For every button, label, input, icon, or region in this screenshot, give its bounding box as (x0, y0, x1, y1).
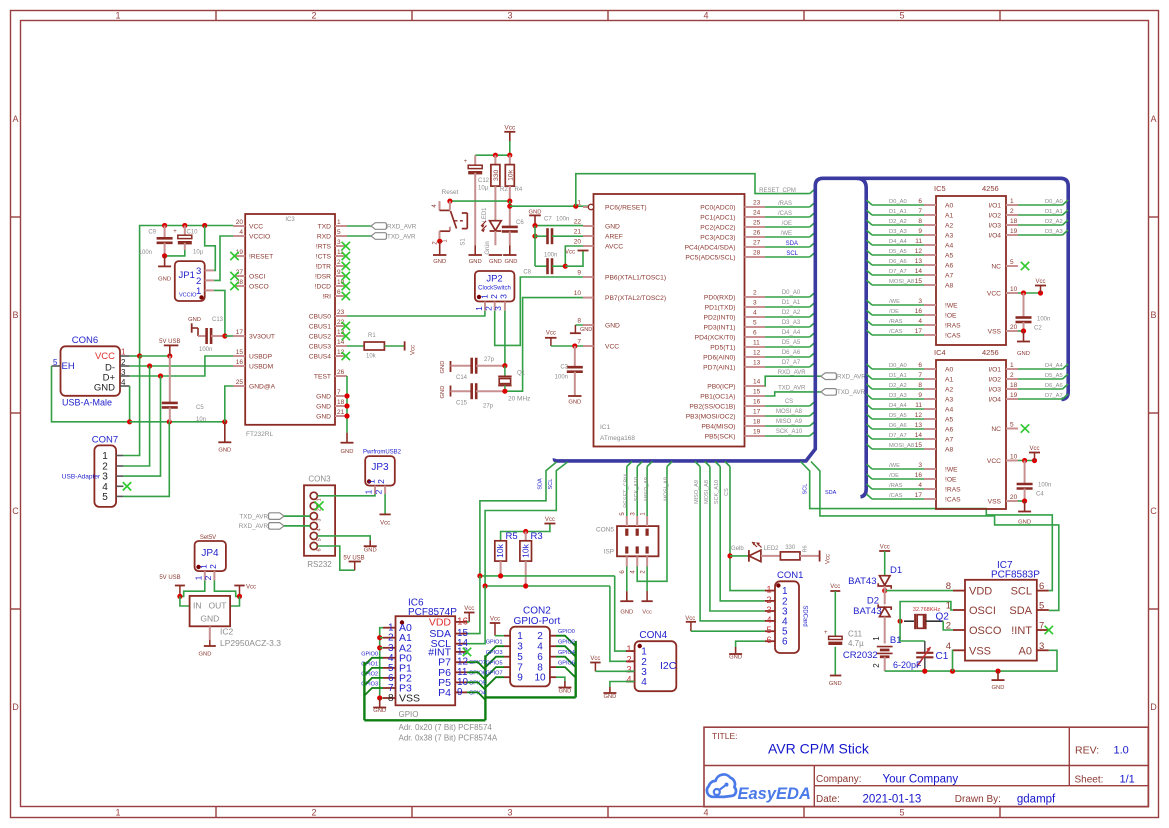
svg-text:5: 5 (517, 652, 523, 663)
IC6 pin 10 P5 (438, 677, 468, 689)
bus entry D3_A3 IC4 (867, 394, 873, 399)
svg-text:1: 1 (1010, 198, 1014, 205)
wire SDA from IC1 (765, 246, 810, 248)
IC6 pin 13 #INT (428, 646, 468, 658)
junction R2 top (493, 153, 498, 158)
svg-text:CON7: CON7 (92, 435, 118, 446)
bus entry D5_A5 right IC4 (1063, 374, 1069, 379)
junction XTAL2 crystal bottom (502, 389, 507, 394)
bus entry D5_A5 IC4 (867, 414, 873, 419)
svg-text:15: 15 (915, 442, 923, 449)
wire A2 stub (380, 647, 383, 649)
svg-text:A5: A5 (945, 417, 953, 424)
svg-text:6: 6 (337, 289, 341, 296)
svg-text:3: 3 (337, 239, 341, 246)
svg-text:8: 8 (577, 318, 581, 325)
svg-text:GND: GND (829, 681, 842, 687)
svg-text:VCC: VCC (987, 291, 1001, 298)
wire SCL from bus end (485, 462, 567, 586)
IC6 pin 12 P7 (438, 657, 468, 669)
wire SCL rail to CON4 pin2 (610, 586, 635, 661)
svg-text:3: 3 (507, 11, 512, 21)
IC4 pin 3 !WE (918, 462, 958, 474)
wire Vcc to IC2 OUT (230, 596, 239, 606)
wire /RAS to IC5 !RAS (872, 324, 924, 326)
wire D1_A1 from IC5 (1018, 214, 1063, 216)
wire SDA rail to CON4 pin1 (615, 576, 635, 651)
wire GPIO7 entry CON2 (485, 677, 504, 688)
wire D5_A5 from IC1 (765, 346, 810, 348)
wire D4_A4 from IC1 (765, 336, 810, 338)
svg-text:VSS: VSS (988, 499, 1002, 506)
svg-text:R4: R4 (515, 187, 523, 193)
svg-text:D5_A5: D5_A5 (782, 340, 801, 346)
svg-text:OUT: OUT (209, 601, 227, 611)
svg-text:PC4(ADC4/SDA): PC4(ADC4/SDA) (685, 245, 736, 252)
no-connect X IC3 CBUS1 (342, 322, 350, 330)
svg-text:10: 10 (534, 673, 546, 684)
svg-text:GPIO0: GPIO0 (558, 629, 575, 635)
svg-text:C: C (12, 506, 19, 516)
svg-text:1: 1 (337, 219, 341, 226)
svg-text:RXD_AVR: RXD_AVR (837, 374, 866, 381)
junction C8 AVCC (563, 264, 568, 269)
wire D3_A3 to IC4 A3 (872, 398, 924, 400)
IC5 pin 19 I/O4 (988, 228, 1018, 240)
wire D1 to D2 (884, 586, 886, 604)
wire JP2 pin3 to crystal (504, 311, 506, 366)
IC7 pin 3 A0 (1019, 641, 1049, 658)
wire JP4 pin2 to Vcc (214, 580, 239, 596)
IC7 pin 4 VSS (946, 641, 991, 658)
svg-text:D4_A4: D4_A4 (782, 330, 801, 336)
svg-text:D7_A7: D7_A7 (889, 433, 907, 439)
svg-text:17: 17 (753, 409, 761, 416)
ground for C6 (503, 245, 517, 265)
svg-text:C7: C7 (544, 217, 552, 223)
svg-text:CON3: CON3 (308, 475, 331, 484)
crystal Q1 (498, 366, 530, 403)
wire MOSI_A8 to CON1 pin3 (710, 467, 765, 612)
wire IC6 SCL to rail (467, 586, 485, 644)
wire CON2 pin10 to GND (556, 677, 565, 681)
bus entry D4_A4 right IC4 (1063, 364, 1069, 369)
svg-text:EasyEDA: EasyEDA (738, 785, 811, 803)
svg-text:/CAS: /CAS (778, 211, 792, 217)
svg-text:GND: GND (341, 449, 354, 455)
svg-text:OSCO: OSCO (249, 284, 269, 291)
wire RXD to port (347, 235, 371, 237)
svg-text:I/O4: I/O4 (988, 397, 1001, 404)
power flag Vcc CON5 (642, 591, 653, 616)
svg-text:SDA: SDA (538, 478, 544, 490)
svg-text:GND: GND (200, 614, 219, 624)
svg-text:MISO_A9: MISO_A9 (776, 419, 803, 425)
svg-text:6-20pF: 6-20pF (893, 660, 922, 670)
battery B1 CR2032 (843, 635, 902, 668)
wire D4_A4 from IC4 (1018, 368, 1063, 370)
CON5 pin stubs and numbers (620, 512, 647, 574)
svg-text:16: 16 (753, 399, 761, 406)
svg-text:/WE: /WE (889, 463, 900, 469)
svg-text:MISO_A9: MISO_A9 (694, 480, 700, 504)
svg-text:ClockSwitch: ClockSwitch (478, 286, 511, 292)
IC4 pin 15 A8 (915, 442, 954, 454)
IC3 pin 11 !CTS (316, 249, 347, 261)
svg-text:C11: C11 (848, 629, 863, 638)
svg-text:4: 4 (918, 482, 922, 489)
svg-text:7: 7 (918, 372, 922, 379)
svg-text:C8: C8 (523, 270, 531, 276)
svg-text:Vcc: Vcc (464, 606, 474, 612)
wire Vcc to CON2 pin1 (495, 635, 504, 637)
svg-text:27p: 27p (484, 357, 495, 363)
svg-text:GND: GND (158, 277, 171, 283)
bus entry D1_A1 (810, 302, 816, 307)
bus main loop (554, 178, 1068, 461)
svg-text:21: 21 (337, 409, 345, 416)
svg-text:PwrfromUSB2: PwrfromUSB2 (363, 450, 402, 456)
svg-text:10: 10 (1010, 454, 1018, 461)
svg-text:RS232: RS232 (307, 560, 332, 569)
ground for IC5 (1023, 331, 1025, 342)
svg-text:25: 25 (236, 379, 244, 386)
wire CON3 pin5 to GND (317, 536, 370, 540)
svg-text:GPIO6: GPIO6 (558, 661, 575, 667)
no-connect X IC6 #INT (463, 648, 471, 656)
svg-text:CS: CS (724, 488, 730, 496)
svg-text:100n: 100n (139, 250, 152, 256)
wire 3V3OUT pin (225, 335, 233, 337)
resistor R5 10k (495, 531, 518, 576)
bus entry /CAS (810, 212, 816, 217)
bus entry SCL (810, 252, 816, 257)
svg-text:RXD_AVR: RXD_AVR (239, 523, 269, 530)
wire CON5 pin6 to GND (626, 567, 628, 592)
svg-text:A1: A1 (945, 213, 953, 220)
svg-text:GND: GND (440, 361, 446, 374)
wire IC7 GND rail (885, 650, 1057, 671)
wire /WE from IC1 (765, 236, 810, 238)
svg-text:D0_A0: D0_A0 (1045, 199, 1063, 205)
bus entry D3_A3 right IC5 (1063, 230, 1069, 235)
bus entry D1_A1 IC5 (867, 210, 873, 215)
bus entry D7_A7 (810, 362, 816, 367)
svg-text:3: 3 (626, 664, 631, 674)
svg-text:GND: GND (1017, 351, 1030, 357)
svg-text:18: 18 (1010, 218, 1018, 225)
svg-text:1: 1 (121, 348, 126, 357)
svg-text:TXD_AVR: TXD_AVR (778, 386, 806, 392)
svg-text:4: 4 (703, 808, 708, 818)
svg-text:C12: C12 (478, 178, 490, 184)
svg-text:D3_A3: D3_A3 (1045, 229, 1063, 235)
svg-text:JP3: JP3 (371, 462, 389, 473)
net port RXD_AVR at CON3 (239, 523, 284, 531)
IC5 pin 14 A7 (915, 268, 954, 280)
svg-text:GND: GND (316, 404, 331, 411)
power flag Vcc CON2 pin1 (490, 617, 500, 636)
bus entry D4_A4 IC4 (867, 404, 873, 409)
svg-text:10n: 10n (196, 417, 206, 423)
bus entry /CAS IC5 (867, 330, 873, 335)
wire VSS down (952, 650, 955, 671)
svg-text:GPIO5: GPIO5 (469, 680, 486, 686)
wire Vcc to pin7 (551, 345, 583, 347)
capacitor C8 (523, 253, 565, 276)
wire /RAS from IC1 (765, 206, 810, 208)
capacitor C9 (139, 226, 173, 257)
svg-text:S1: S1 (461, 238, 467, 246)
wire CON1 pin6 to GND (736, 641, 765, 647)
IC3 pin 12 CBUS4 (309, 349, 347, 361)
bus entry D6_A6 IC4 (867, 424, 873, 429)
wire D2_A2 to IC5 A2 (872, 224, 924, 226)
junction GND rail IC7 (995, 669, 1000, 674)
svg-text:GND: GND (1018, 520, 1031, 526)
svg-text:GND: GND (605, 323, 620, 330)
svg-text:SCK_A10: SCK_A10 (634, 477, 640, 501)
wire CON6 shell EH to GND rail (52, 366, 130, 422)
svg-text:18: 18 (337, 399, 345, 406)
wire JP4 pin1 to 5VUSB (180, 580, 205, 596)
bus entry D6_A6 (810, 352, 816, 357)
svg-text:CON6: CON6 (72, 335, 98, 346)
bus entry /CAS IC4 (867, 494, 873, 499)
svg-text:Vcc: Vcc (411, 345, 417, 355)
IC1 pin 6 PD4(XCK/T0) (695, 330, 765, 342)
IC3 pin 2 !DTR (315, 259, 347, 271)
IC5 pin 12 A5 (915, 248, 954, 260)
wire D6_A6 from IC1 (765, 356, 810, 358)
svg-text:/RAS: /RAS (778, 201, 792, 207)
power flag Vcc at IC2 OUT (234, 585, 256, 597)
svg-text:!CAS: !CAS (945, 497, 961, 504)
svg-text:!DSR: !DSR (315, 274, 331, 281)
svg-text:28: 28 (753, 250, 761, 257)
connector CON5 ISP box (596, 526, 659, 556)
connector CON1 box (775, 570, 808, 653)
junction Q2 left (898, 619, 903, 624)
IC1 pin 8 GND (577, 318, 620, 330)
svg-text:C1: C1 (936, 651, 949, 662)
svg-text:I/O2: I/O2 (988, 213, 1001, 220)
svg-text:D4_A4: D4_A4 (889, 239, 908, 245)
wire GPIO0 entry left (364, 658, 383, 666)
junction IC6 A1 (377, 635, 382, 640)
power flag Vcc IC4 (1029, 446, 1040, 461)
wire LED2 to R6 (761, 555, 781, 557)
svg-text:BAT43: BAT43 (853, 606, 881, 617)
svg-text:USB-A-Male: USB-A-Male (62, 398, 112, 408)
svg-text:GPIO2: GPIO2 (558, 640, 575, 646)
svg-text:PB5(SCK): PB5(SCK) (705, 434, 736, 441)
no-connect X CON3 pin2 (315, 501, 324, 510)
svg-text:Gelb: Gelb (731, 546, 744, 552)
svg-text:PB4(MISO): PB4(MISO) (701, 424, 735, 431)
svg-text:SCL: SCL (548, 479, 554, 490)
bus entry SCK_A10 (810, 431, 816, 436)
svg-text:NC: NC (991, 426, 1001, 433)
svg-text:/RAS: /RAS (889, 483, 903, 489)
svg-text:11: 11 (753, 340, 760, 347)
junction VCC x139 (137, 353, 142, 358)
wire MOSI_A8 from IC1 (765, 415, 810, 417)
wire IC6 A0 A1 A2 VSS to GND (380, 628, 383, 698)
wire /WE to IC4 !WE (872, 468, 924, 470)
svg-text:GND: GND (505, 259, 518, 265)
svg-text:4: 4 (239, 229, 243, 236)
ground for IC4 (1024, 501, 1026, 512)
wire /CAS from IC1 (765, 216, 810, 218)
svg-text:12: 12 (915, 412, 923, 419)
svg-text:SCL: SCL (786, 251, 798, 257)
wire D0_A0 to IC5 A0 (872, 204, 924, 206)
svg-text:7: 7 (1039, 621, 1044, 632)
wire Vcc to CON4 pin3 (595, 670, 634, 672)
IC4 pin 19 I/O4 (988, 392, 1018, 404)
svg-text:PB0(ICP): PB0(ICP) (707, 384, 735, 391)
junction reset branch (507, 204, 512, 209)
no-connect X IC3 OSCI (230, 272, 238, 280)
IC6 pin 5 P1 (383, 662, 412, 674)
svg-text:A2: A2 (945, 387, 953, 394)
svg-text:9: 9 (577, 270, 581, 277)
svg-text:D6_A6: D6_A6 (782, 350, 801, 356)
bus entry D5_A5 IC5 (867, 250, 873, 255)
power flag Vcc at R6 rotated (820, 550, 832, 564)
no-connect X IC3 CBUS4 (342, 352, 350, 360)
IC7 pin 5 SDA (1009, 601, 1048, 618)
bus entry MISO_A9 down (695, 462, 700, 467)
svg-text:5: 5 (337, 229, 341, 236)
IC6 pin 14 SCL (431, 638, 469, 650)
svg-text:P4: P4 (438, 687, 451, 699)
svg-text:A8: A8 (945, 447, 953, 454)
bus entry D4_A4 (810, 332, 816, 337)
svg-text:3: 3 (507, 808, 512, 818)
junction IC5 VSS (1021, 328, 1026, 333)
svg-text:/CAS: /CAS (889, 329, 903, 335)
wire D1_A1 to IC5 A1 (872, 214, 924, 216)
wire R1 to Vcc flag (384, 345, 404, 347)
wire GPIO2 entry CON2 right (556, 646, 576, 657)
IC3 pin 22 CBUS1 (309, 319, 347, 331)
svg-text:10µ: 10µ (193, 250, 204, 256)
bus entry SCK_A10 CON5 (637, 462, 642, 467)
svg-text:2: 2 (208, 564, 218, 569)
svg-text:C13: C13 (212, 317, 224, 323)
svg-text:RXD_AVR: RXD_AVR (778, 370, 807, 376)
svg-text:PB1(OC1A): PB1(OC1A) (700, 394, 735, 401)
wire IC4 VCC (1018, 460, 1035, 462)
svg-text:D3_A3: D3_A3 (889, 393, 907, 399)
capacitor C5 (162, 356, 206, 423)
junction 3V3OUT (222, 333, 227, 338)
svg-text:BAT43: BAT43 (848, 576, 876, 587)
svg-text:GPIO: GPIO (399, 710, 419, 719)
svg-text:OSCI: OSCI (969, 605, 996, 617)
wire GPIO5 entry right (467, 682, 485, 690)
svg-text:1: 1 (115, 11, 120, 21)
svg-text:!WE: !WE (945, 467, 958, 474)
svg-text:SDCard: SDCard (802, 605, 808, 626)
capacitor C10 (173, 226, 203, 256)
svg-text:ATmega168: ATmega168 (600, 435, 635, 442)
wire CS from IC1 (765, 405, 810, 407)
svg-text:!RAS: !RAS (945, 487, 961, 494)
no-connect X IC4 NC (1021, 424, 1029, 432)
jumper JP4 box (195, 535, 226, 571)
bus entry /RAS (810, 202, 816, 207)
power flag Vcc at R1 rotated (405, 341, 417, 355)
svg-text:3: 3 (493, 306, 503, 311)
svg-text:11: 11 (915, 238, 922, 245)
svg-text:3: 3 (1039, 641, 1044, 652)
IC1 pin 5 PD3(INT1) (704, 320, 765, 332)
IC7 pin 7 !INT (1011, 621, 1049, 638)
title block (704, 727, 1148, 807)
wire reset to IC1 pin1 (509, 201, 511, 206)
svg-text:5: 5 (1010, 259, 1014, 266)
svg-text:GND: GND (316, 414, 331, 421)
svg-text:PD0(RXD): PD0(RXD) (704, 295, 736, 302)
IC5 pin 11 A4 (915, 238, 953, 250)
junction IC3 GND pin18 (344, 403, 349, 408)
svg-text:USBDP: USBDP (249, 354, 273, 361)
svg-text:MOSI_A8: MOSI_A8 (889, 443, 914, 449)
svg-text:Adr. 0x38 (7 Bit) PCF8574A: Adr. 0x38 (7 Bit) PCF8574A (399, 734, 498, 743)
svg-text:12: 12 (753, 350, 761, 357)
svg-text:22: 22 (574, 219, 582, 226)
svg-text:20: 20 (236, 219, 244, 226)
power flag Vcc top (504, 124, 516, 155)
svg-text:JP2: JP2 (486, 274, 502, 285)
IC5 pin 6 A0 (918, 198, 953, 210)
wire Vcc rail top (475, 154, 510, 156)
IC5 pin 3 !WE (918, 298, 958, 310)
IC4 pin 20 VSS (988, 494, 1018, 506)
svg-text:R1: R1 (368, 333, 376, 339)
svg-text:C2: C2 (1034, 326, 1042, 332)
wire GPIO4 entry CON2 right (556, 657, 576, 668)
svg-text:D2_A2: D2_A2 (1045, 219, 1063, 225)
wire TXD_AVR to CON3 pin3 (284, 515, 310, 517)
svg-text:1: 1 (115, 808, 120, 818)
junction IC3 GND pin7 (344, 393, 349, 398)
bus entry D0_A0 (810, 292, 816, 297)
svg-text:1: 1 (364, 489, 374, 494)
junction reset at switch (447, 199, 452, 204)
svg-text:B: B (1150, 310, 1156, 320)
junction IC4 VSS (1022, 498, 1027, 503)
IC1 pin 11 PD5(T1) (710, 340, 765, 352)
svg-text:2: 2 (337, 259, 341, 266)
CON1 pin stubs (765, 585, 775, 646)
svg-text:VCC: VCC (987, 458, 1001, 465)
svg-text:A4: A4 (945, 243, 953, 250)
IC4 pin 11 A4 (915, 402, 953, 414)
IC6 pin 11 P6 (438, 667, 468, 679)
IC7 pin 6 SCL (1011, 581, 1049, 598)
svg-text:D6_A6: D6_A6 (889, 259, 907, 265)
svg-text:100n: 100n (1038, 483, 1051, 489)
svg-text:8: 8 (918, 382, 922, 389)
svg-text:PC3(ADC3): PC3(ADC3) (700, 235, 735, 242)
wire MOSI_A8 to CON5 pin4 (637, 467, 667, 582)
bus entry RESET_CPM CON5 (627, 462, 632, 467)
svg-text:VCCIO: VCCIO (249, 234, 270, 241)
